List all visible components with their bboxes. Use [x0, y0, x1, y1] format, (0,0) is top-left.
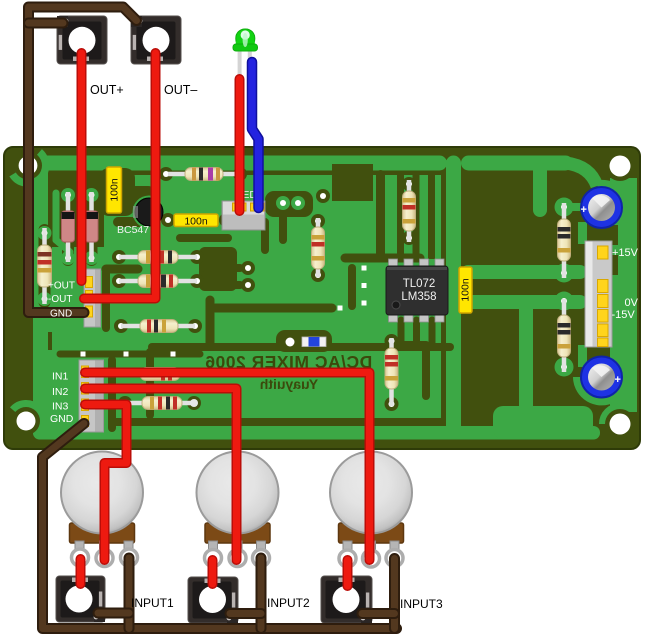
svg-text:INPUT1: INPUT1 — [131, 596, 174, 610]
svg-text:100n: 100n — [184, 216, 208, 228]
svg-text:IN2: IN2 — [52, 386, 69, 398]
wire VR1 to jack INPUT1 (red) — [76, 559, 86, 584]
wire IN2 to VR2 (red) — [85, 389, 237, 561]
resistor R2 (vertical, left) — [38, 228, 52, 304]
mounting hole top-left — [19, 156, 38, 175]
capacitor E2 (electrolytic) — [581, 357, 622, 398]
diode D2 — [85, 192, 98, 262]
svg-text:IN3: IN3 — [52, 401, 69, 413]
bright ring around transistor Q1 — [133, 196, 166, 229]
connector J-OUT — [84, 269, 101, 327]
trace stub R11 pad to E1 — [560, 203, 584, 211]
trace ring around capacitor E2 — [577, 365, 627, 402]
wire LED anode (red) — [235, 79, 245, 211]
mounting hole bottom-right — [610, 414, 631, 435]
wire GND bus (bottom, brown) — [43, 424, 397, 629]
resistor R9 (vertical, upper) — [403, 180, 416, 242]
wire OUT- (red) — [84, 53, 156, 299]
svg-text:0V: 0V — [625, 297, 639, 309]
resistor R5 (horizontal) — [121, 320, 195, 333]
etched channels (dark) on copper — [45, 164, 619, 428]
wire IN1 to VR3 (red) — [85, 373, 370, 561]
PCB copper traces (bright green) — [33, 156, 637, 440]
svg-text:INPUT2: INPUT2 — [267, 596, 310, 610]
wire LED cathode (blue) — [252, 62, 259, 208]
wire jack INPUT2 ground stub (brown) — [230, 608, 261, 619]
trace stub E1 to strip — [578, 222, 587, 244]
wire VR2 ground (brown) — [256, 558, 267, 629]
wire GND branch to jack OUT+ (brown) — [29, 18, 64, 29]
svg-text:+: + — [615, 374, 621, 386]
capacitor C2 100n — [174, 214, 218, 228]
LED LD1 (green) — [233, 29, 258, 80]
connector J-IN — [79, 360, 104, 432]
transistor Q1 BC547 — [133, 198, 163, 226]
svg-text:TL072: TL072 — [403, 278, 436, 290]
jumper SMD (blue) — [302, 337, 326, 347]
svg-text:-15V: -15V — [612, 309, 636, 321]
wire VR2 to jack INPUT2 (red) — [208, 560, 218, 584]
svg-text:INPUT3: INPUT3 — [400, 597, 443, 611]
svg-text:BC547: BC547 — [117, 224, 149, 236]
wire jack INPUT1 ground stub (brown) — [98, 608, 129, 619]
svg-text:GND: GND — [50, 309, 72, 320]
potentiometer VR2 — [197, 452, 279, 567]
capacitor C1 100n — [107, 167, 122, 213]
svg-text:100n: 100n — [460, 278, 472, 302]
svg-text:Yuayuith: Yuayuith — [260, 376, 318, 392]
wire jack INPUT3 ground stub (brown) — [362, 608, 395, 619]
wire VR3 ground (brown) — [389, 559, 400, 629]
svg-text:OUT+: OUT+ — [90, 83, 124, 97]
jack INPUT1 — [56, 576, 105, 622]
svg-text:+15V: +15V — [612, 247, 639, 259]
solder pads (dark ring on copper) — [112, 167, 416, 411]
mounting hole bottom-left — [17, 412, 36, 431]
wire GND bus (top left, brown) — [29, 7, 137, 313]
potentiometer VR1 — [61, 452, 143, 567]
wire IN3 to VR1 (red) — [85, 405, 127, 561]
trace stub E2 to strip — [578, 345, 587, 367]
wire OUT+ (red) — [77, 53, 87, 281]
jack OUT+ — [57, 16, 107, 64]
PCB board — [4, 147, 640, 449]
op-amp U1 TL072/LM358 — [386, 259, 448, 322]
wire VR1 ground (brown) — [124, 558, 135, 629]
potentiometer VR3 — [330, 452, 412, 568]
resistor R11 (vertical, right top) — [558, 203, 571, 278]
svg-text:+OUT: +OUT — [48, 281, 75, 292]
trace arcs around mounting holes — [13, 152, 620, 434]
mounting hole top-right — [610, 156, 631, 177]
dark clearance around holes — [12, 151, 635, 439]
solder pads (bright ring on dark) — [38, 188, 568, 370]
capacitor E1 (electrolytic) — [581, 187, 623, 228]
trace stubs at R11/R12 pads — [555, 198, 574, 377]
svg-text:IN1: IN1 — [52, 371, 69, 383]
diode D1 — [62, 192, 75, 262]
svg-text:+: + — [581, 204, 587, 216]
resistor R8 (vertical, center) — [312, 218, 325, 277]
connector J-PWR terminal strip — [585, 241, 612, 347]
jack INPUT3 — [321, 576, 372, 623]
capacitor C3 100n — [459, 267, 472, 313]
resistor R7 (horizontal) — [125, 397, 198, 410]
resistor R6 (horizontal, under wires) — [125, 368, 196, 381]
jack OUT- — [131, 16, 181, 64]
svg-text:-OUT: -OUT — [48, 294, 72, 305]
trace ring around capacitor E1 — [597, 183, 627, 221]
svg-text:OUT–: OUT– — [164, 83, 197, 97]
resistor R1 (horizontal, violet band) — [168, 168, 239, 181]
resistor R10 (vertical, lower) — [385, 338, 398, 406]
wire VR3 to jack INPUT3 (red) — [343, 560, 353, 586]
jack INPUT2 — [188, 577, 238, 623]
trace segments upper-left — [56, 178, 80, 252]
resistor R4 (horizontal) — [119, 275, 197, 288]
connector J-LED — [222, 201, 265, 230]
svg-text:100n: 100n — [109, 178, 121, 202]
resistor R12 (vertical, right bottom) — [558, 299, 571, 372]
svg-text:LM358: LM358 — [401, 291, 436, 303]
svg-text:GND: GND — [50, 413, 74, 425]
resistor R3 (horizontal) — [119, 251, 197, 264]
